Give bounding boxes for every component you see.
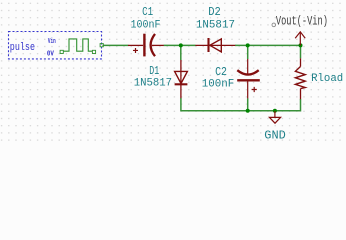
svg-text:D2: D2 (208, 5, 221, 19)
svg-text:1N5817: 1N5817 (134, 78, 172, 90)
svg-text:D1: D1 (149, 64, 159, 78)
svg-text:100nF: 100nF (131, 20, 161, 32)
svg-text:pulse: pulse (10, 42, 35, 54)
svg-text:1N5817: 1N5817 (196, 20, 235, 32)
svg-text:Vout(-Vin): Vout(-Vin) (276, 13, 328, 28)
svg-text:Rload: Rload (311, 73, 343, 85)
svg-text:C2: C2 (215, 65, 227, 79)
svg-text:Vin: Vin (48, 38, 56, 46)
svg-text:GND: GND (264, 129, 286, 143)
svg-text:100nF: 100nF (202, 78, 235, 90)
svg-text:C1: C1 (142, 5, 153, 19)
svg-text:0V: 0V (47, 51, 55, 59)
